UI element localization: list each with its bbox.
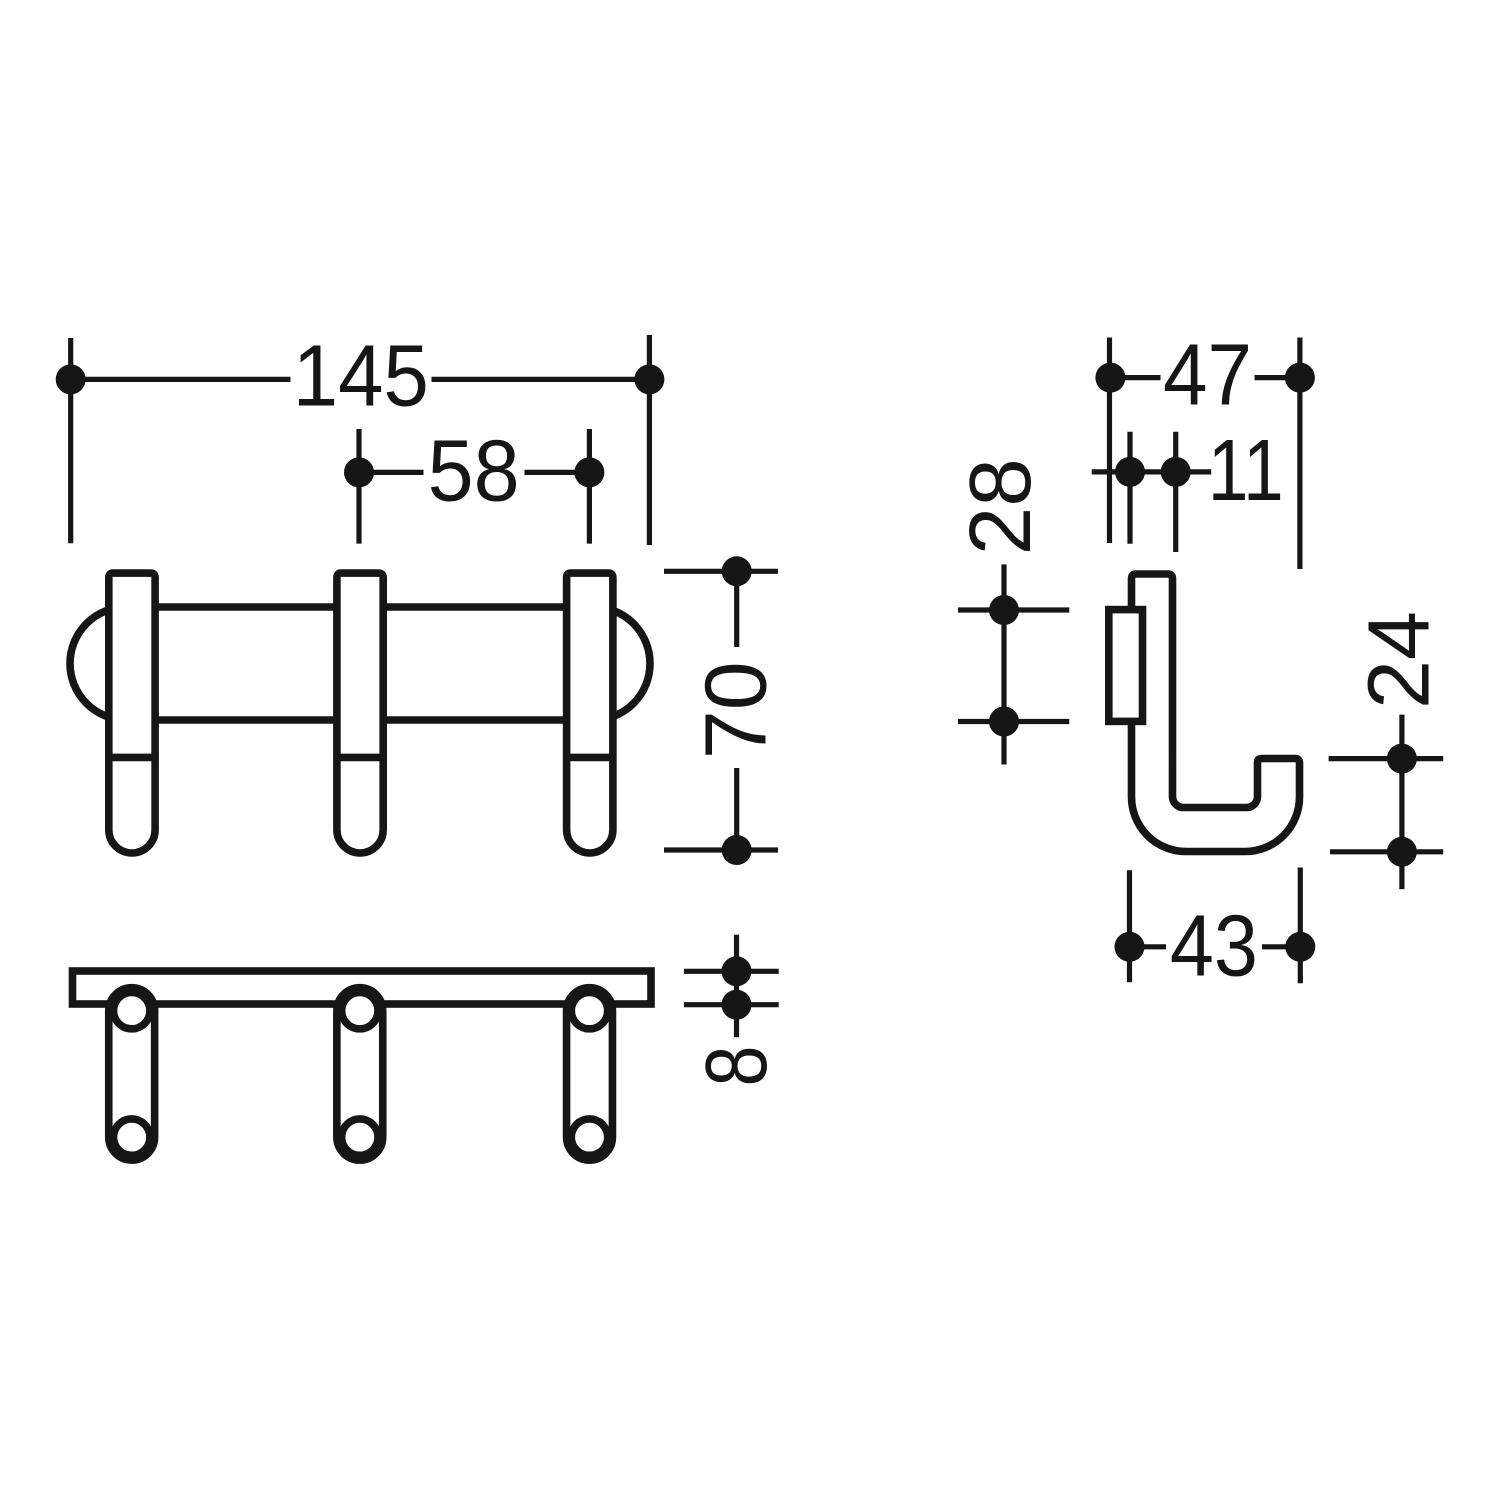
hook 3 (top view) with pin circles <box>567 988 613 1160</box>
hook body (J profile) <box>1132 574 1300 852</box>
svg-text:70: 70 <box>688 661 785 759</box>
mounting plate (side view) <box>1109 610 1143 722</box>
hook 1 (top view) with pin circles <box>109 988 155 1160</box>
rail bar (top view plate) <box>73 971 652 1004</box>
dimension 47 <box>1095 338 1315 570</box>
dimension 11 <box>1092 432 1212 552</box>
hook 2 (front view, middle) <box>333 573 386 853</box>
svg-text:145: 145 <box>293 328 429 425</box>
hook 3 (front view, right) <box>563 573 616 853</box>
svg-text:11: 11 <box>1208 422 1284 519</box>
dimension 24 <box>1329 715 1444 890</box>
dimension 58 <box>344 429 604 544</box>
dimension 43 <box>1115 868 1316 984</box>
rail bar (stadium shape) <box>70 607 650 720</box>
svg-text:24: 24 <box>1351 611 1448 709</box>
svg-text:8: 8 <box>688 1046 785 1087</box>
dimension 145 <box>56 335 665 545</box>
svg-text:58: 58 <box>428 423 520 520</box>
hook 1 (front view, left) <box>105 573 158 853</box>
hook 2 (top view) with pin circles <box>337 988 383 1160</box>
dimension 8 <box>684 935 779 1038</box>
dimension 70 <box>664 556 778 865</box>
svg-text:43: 43 <box>1170 898 1258 995</box>
svg-text:47: 47 <box>1163 327 1252 424</box>
dimension 28 <box>958 564 1069 764</box>
svg-text:28: 28 <box>952 458 1049 555</box>
